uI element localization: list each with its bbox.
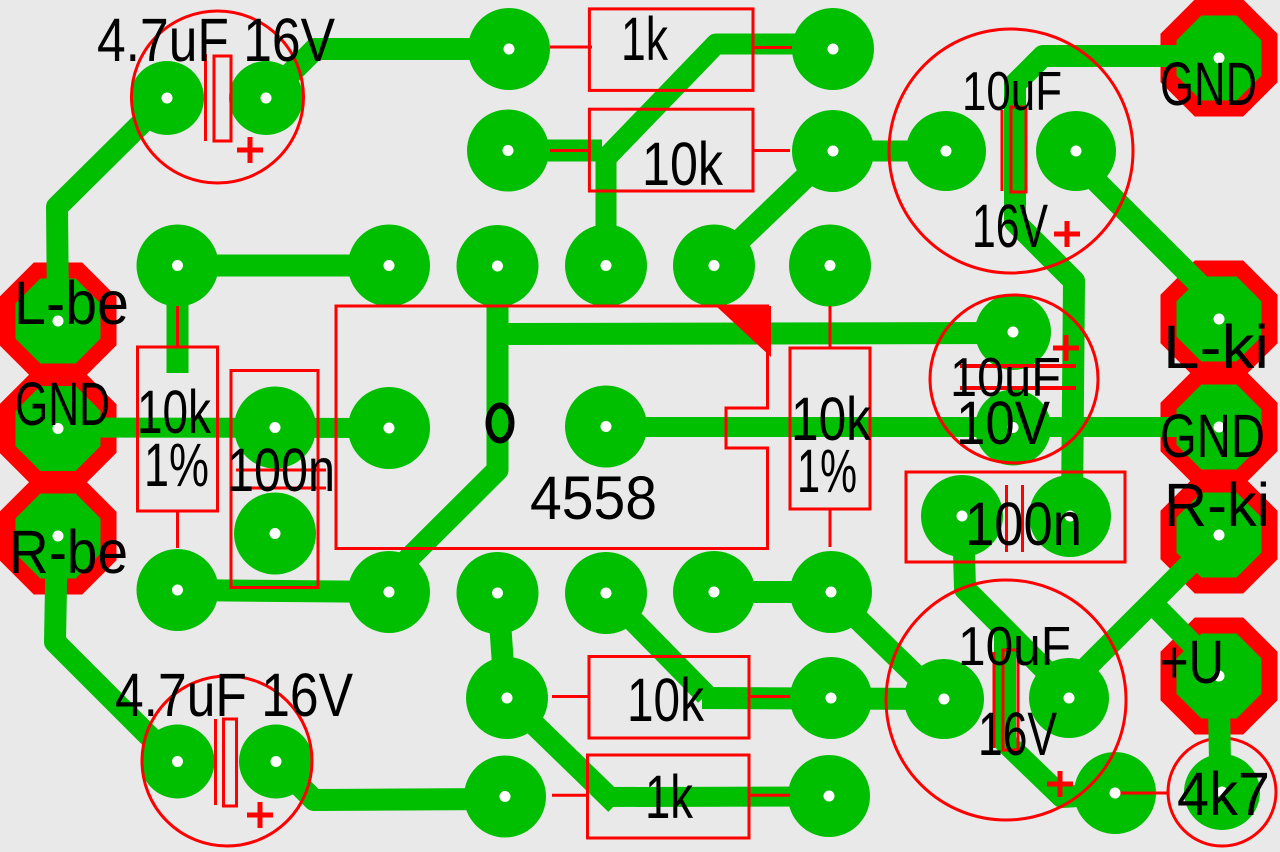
svg-text:1k: 1k [621,5,668,73]
svg-text:10k: 10k [627,666,704,734]
svg-text:+U: +U [1160,628,1224,696]
svg-text:1k: 1k [645,763,693,831]
svg-text:R-be: R-be [9,518,128,586]
svg-text:4.7uF 16V: 4.7uF 16V [97,6,335,74]
svg-text:GND: GND [15,370,110,438]
svg-text:4.7uF 16V: 4.7uF 16V [115,661,353,729]
svg-text:10uF: 10uF [962,60,1062,122]
svg-text:4558: 4558 [530,464,657,532]
svg-text:GND: GND [1160,402,1265,470]
svg-text:1%: 1% [797,437,857,505]
svg-text:10uF: 10uF [958,615,1071,677]
svg-text:L-ki: L-ki [1163,313,1269,381]
svg-text:16V: 16V [978,700,1057,768]
svg-text:L-be: L-be [14,269,129,337]
svg-text:4k7: 4k7 [1177,760,1270,828]
svg-text:100n: 100n [965,490,1082,558]
svg-text:1%: 1% [144,431,209,499]
svg-text:100n: 100n [227,436,335,504]
svg-text:10k: 10k [642,130,723,198]
svg-text:R-ki: R-ki [1164,471,1270,539]
svg-text:GND: GND [1160,50,1257,118]
svg-text:10V: 10V [956,389,1050,457]
svg-text:16V: 16V [972,192,1048,260]
